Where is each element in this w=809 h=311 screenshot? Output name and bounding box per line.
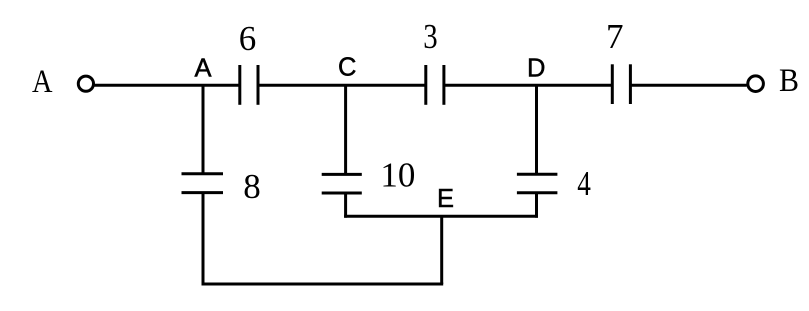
svg-text:C: C [338,54,356,82]
svg-text:7: 7 [606,17,624,56]
svg-text:3: 3 [423,17,437,56]
svg-text:E: E [437,185,454,213]
svg-text:A: A [32,64,53,100]
svg-text:A: A [195,55,212,83]
svg-text:D: D [527,55,545,83]
svg-text:8: 8 [243,167,260,206]
svg-text:4: 4 [577,164,591,203]
svg-text:10: 10 [380,156,415,195]
svg-text:B: B [779,63,799,99]
svg-text:6: 6 [239,19,257,58]
